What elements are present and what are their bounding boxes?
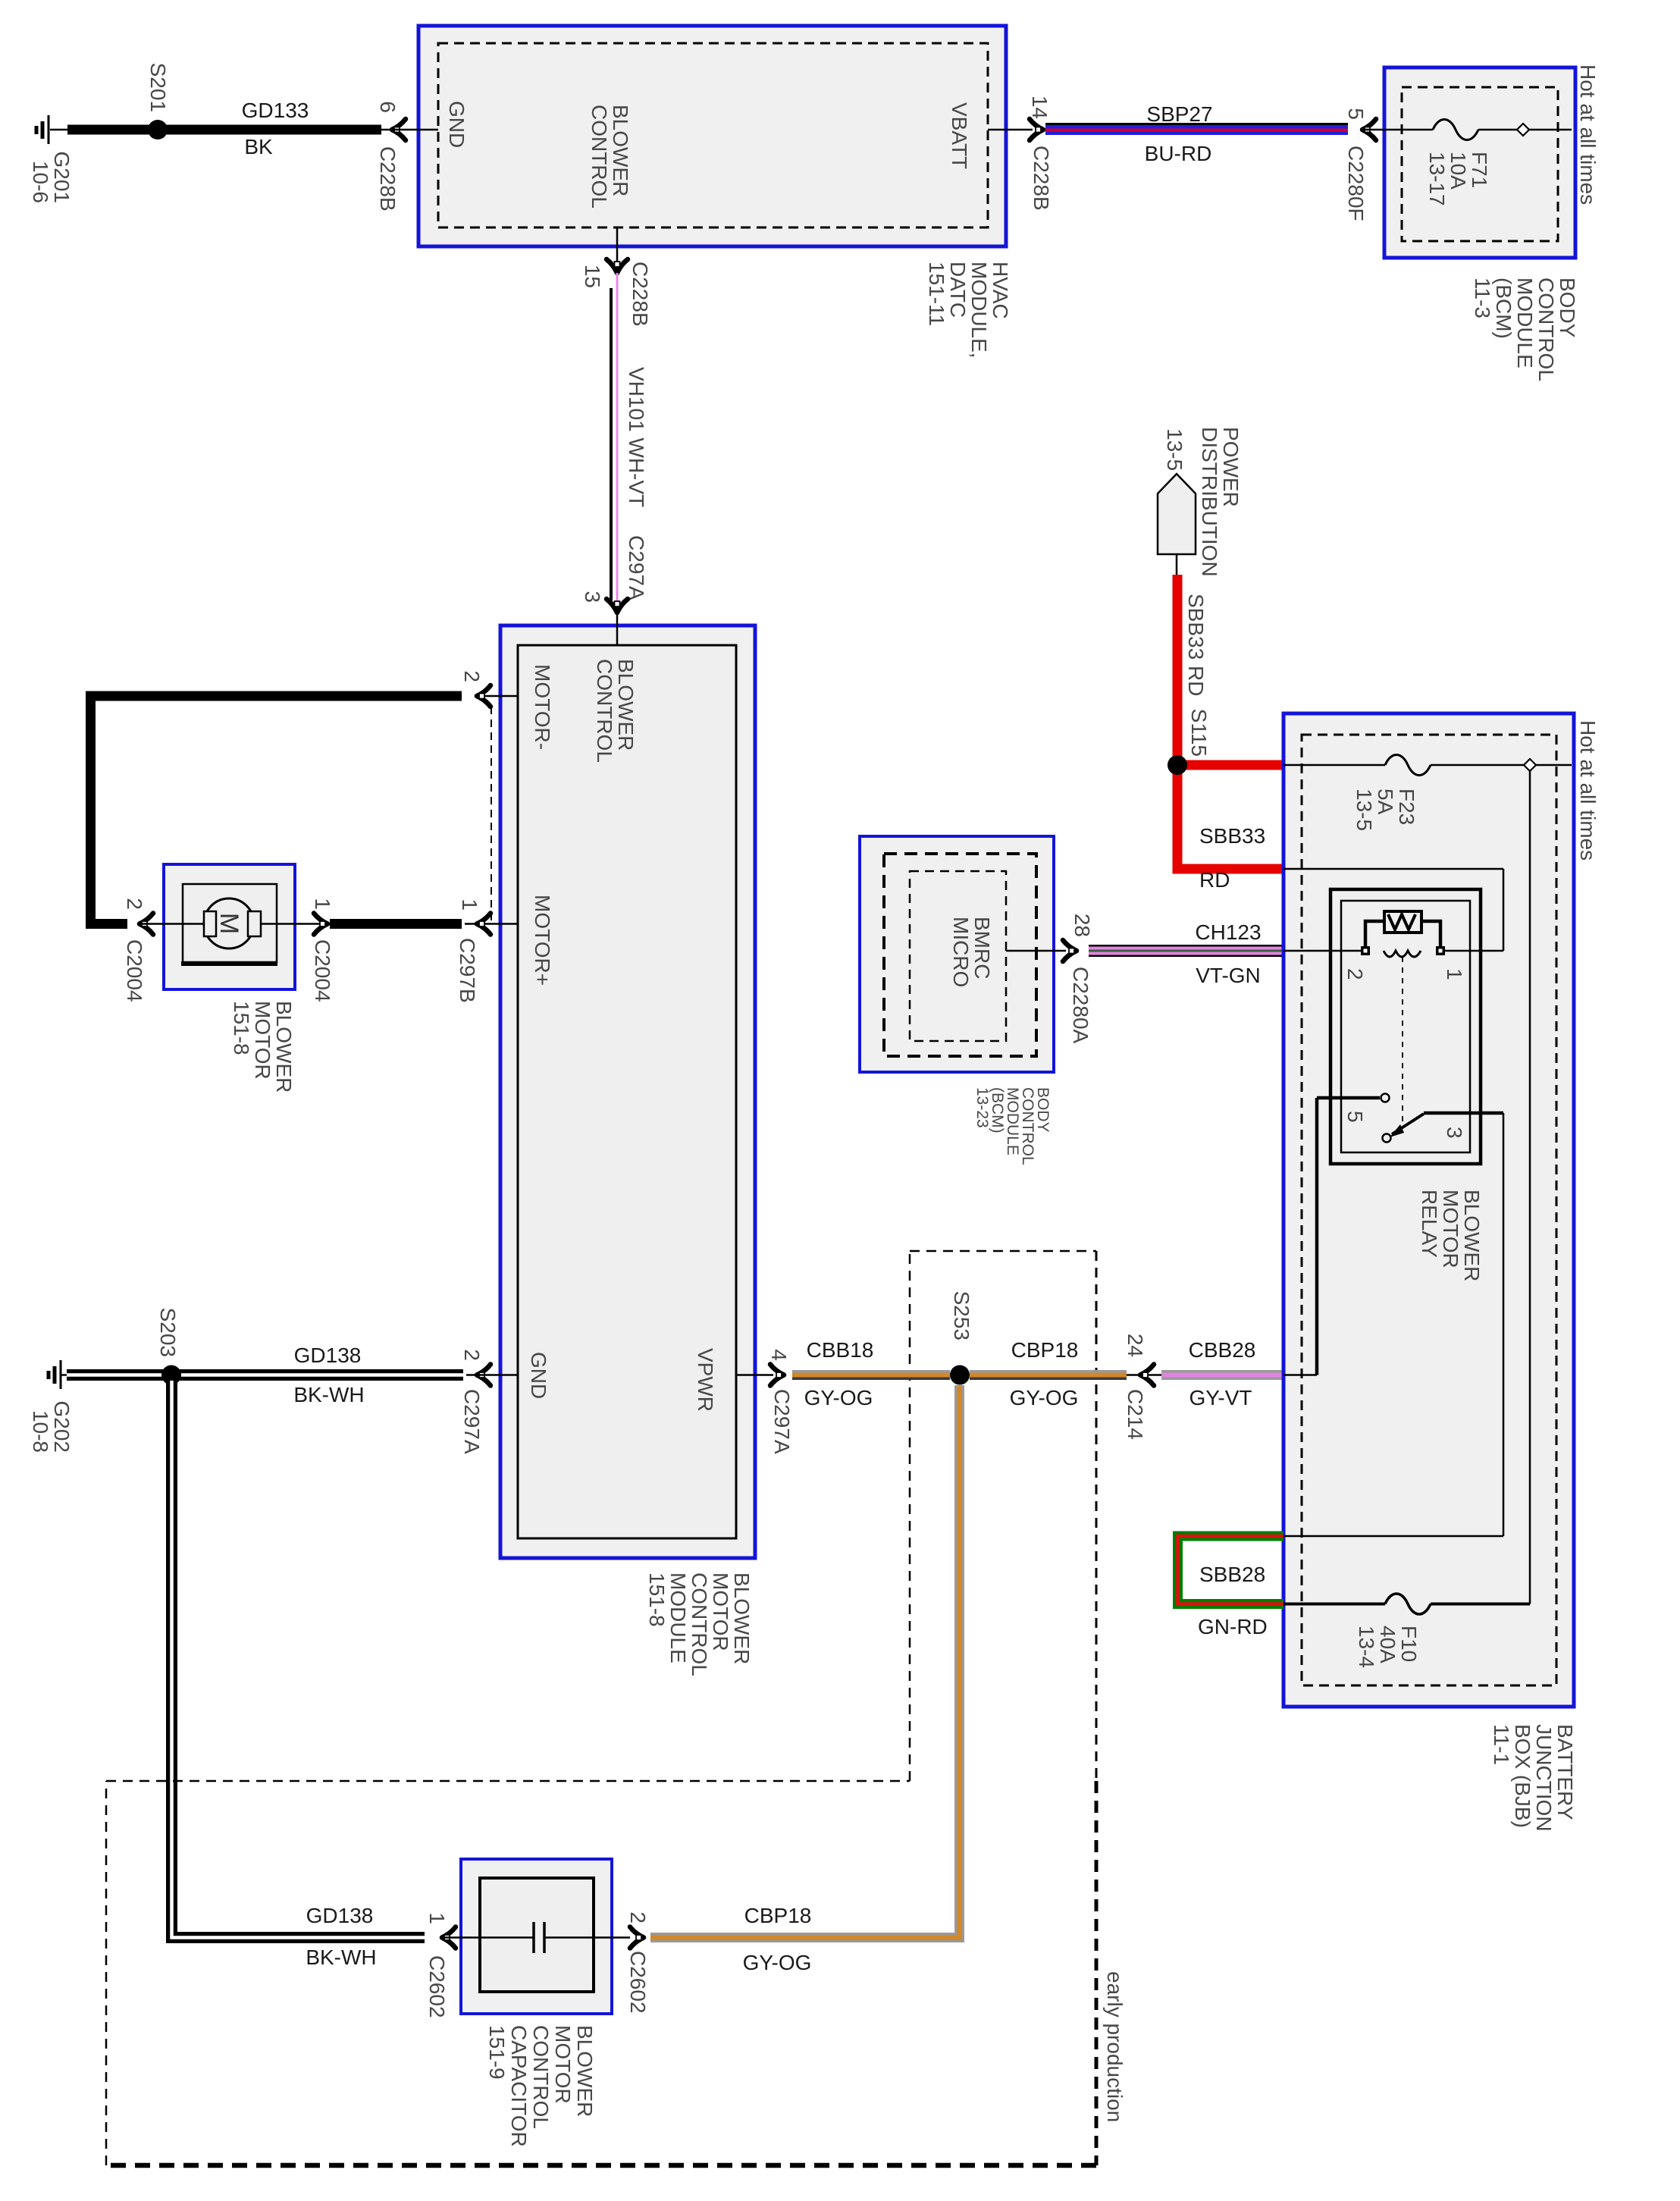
connector arrow pin 14 C228B — [1030, 119, 1043, 140]
ground G201 — [36, 115, 67, 144]
wire VPWR stub — [736, 1374, 773, 1376]
connector arrow pin 2 C297A — [477, 1365, 491, 1386]
svg-text:BATTERY: BATTERY — [1553, 1724, 1577, 1820]
motor brush left — [204, 911, 216, 936]
svg-text:2: 2 — [460, 1349, 484, 1361]
power distribution arrow symbol — [1158, 474, 1196, 554]
connector arrow pin 2 C297B — [477, 685, 491, 707]
svg-text:CBP18: CBP18 — [744, 1904, 812, 1927]
dashed harness box around S253 and early production region — [106, 1251, 1096, 2165]
svg-text:S201: S201 — [146, 63, 170, 112]
svg-text:M: M — [215, 913, 243, 934]
connector arrow pin 5 C2280F — [1362, 119, 1376, 140]
svg-text:GD138: GD138 — [306, 1904, 374, 1927]
wire into blower motor control module — [616, 613, 619, 645]
svg-text:13-5: 13-5 — [1352, 789, 1376, 831]
label F23 5A 13-5 — [1352, 789, 1418, 831]
svg-text:2: 2 — [123, 898, 146, 910]
svg-text:BLOWER: BLOWER — [609, 105, 632, 196]
svg-text:JUNCTION: JUNCTION — [1532, 1724, 1556, 1832]
svg-text:VT-GN: VT-GN — [1196, 964, 1261, 987]
wire into F23 — [1284, 764, 1385, 767]
svg-text:C228B: C228B — [628, 262, 652, 327]
label BLOWER MOTOR 151-8 — [230, 1001, 296, 1093]
wire SBP27 BU-RD — [1045, 123, 1348, 135]
BMRC inner dashed box — [910, 871, 1006, 1041]
wire into BCM — [1362, 129, 1433, 131]
svg-text:CH123: CH123 — [1195, 920, 1261, 944]
wire through blower motor — [139, 923, 328, 925]
blower motor box — [164, 864, 295, 989]
svg-text:C228B: C228B — [376, 146, 400, 212]
fuse F71 10A — [1433, 120, 1478, 140]
wire SBB28 GN-RD loop — [1178, 1536, 1284, 1604]
svg-text:DATC: DATC — [946, 262, 970, 318]
wire relay pin 5 down to CBB28 — [1284, 1098, 1317, 1375]
svg-text:SBB28: SBB28 — [1199, 1563, 1265, 1586]
label F71 10A 13-17 — [1425, 152, 1491, 206]
junction diamond F23 — [1524, 759, 1536, 771]
svg-text:GY-VT: GY-VT — [1189, 1386, 1252, 1409]
svg-text:POWER: POWER — [1219, 427, 1243, 507]
BJB inner dashed box — [1302, 735, 1556, 1685]
svg-text:1: 1 — [311, 898, 334, 910]
relay inner box — [1341, 901, 1470, 1152]
svg-text:SBB33: SBB33 — [1199, 824, 1265, 848]
wire VH101 WH-VT — [611, 273, 617, 607]
svg-text:F71: F71 — [1468, 152, 1491, 188]
svg-text:1: 1 — [425, 1912, 449, 1924]
wire SBB33 RD — [1177, 575, 1284, 869]
wire SBB33 feed to relay coil — [1284, 869, 1503, 951]
connector arrow pin 3 C297A — [606, 599, 628, 613]
svg-text:BOX (BJB): BOX (BJB) — [1511, 1724, 1534, 1828]
svg-text:1: 1 — [1443, 968, 1466, 980]
svg-text:CONTROL: CONTROL — [1534, 277, 1558, 381]
label BLOWER CONTROL (BMCM) — [593, 659, 638, 763]
svg-text:13-17: 13-17 — [1425, 152, 1449, 206]
svg-text:BLOWER: BLOWER — [730, 1572, 754, 1664]
svg-text:GD138: GD138 — [294, 1343, 362, 1367]
wire GD133 BK — [67, 125, 381, 135]
svg-text:MODULE,: MODULE, — [967, 262, 991, 359]
svg-text:C297A: C297A — [770, 1389, 794, 1454]
svg-text:S203: S203 — [156, 1308, 180, 1357]
svg-text:BLOWER: BLOWER — [1460, 1190, 1484, 1281]
connector arrow blower motor pin 2 — [139, 914, 153, 935]
label BMRC MICRO — [949, 917, 994, 987]
svg-text:C2004: C2004 — [123, 939, 146, 1002]
junction diamond — [1517, 124, 1529, 136]
svg-text:13-23: 13-23 — [973, 1087, 991, 1128]
label BODY CONTROL MODULE (BCM) 13-23 — [973, 1087, 1052, 1165]
svg-text:1: 1 — [458, 898, 481, 911]
svg-text:5A: 5A — [1374, 789, 1397, 815]
svg-text:GND: GND — [445, 101, 469, 148]
svg-text:151-8: 151-8 — [645, 1572, 669, 1627]
svg-text:4: 4 — [767, 1349, 791, 1361]
connector arrow pin 15 C228B — [606, 259, 628, 273]
label BLOWER MOTOR RELAY — [1418, 1190, 1484, 1281]
splice S201 — [148, 120, 168, 140]
connector arrow pin 6 C228B — [392, 119, 406, 140]
svg-text:11-3: 11-3 — [1471, 277, 1494, 318]
svg-text:GD133: GD133 — [242, 99, 309, 122]
blower motor relay outer box — [1331, 889, 1481, 1164]
svg-text:(BCM): (BCM) — [1492, 277, 1515, 339]
svg-text:GY-OG: GY-OG — [743, 1951, 812, 1974]
splice S253 — [950, 1365, 970, 1385]
svg-text:11-1: 11-1 — [1490, 1724, 1513, 1765]
relay pin 5 contact — [1317, 1094, 1390, 1102]
connector arrow pin 1 C297B — [477, 914, 491, 935]
connector arrow capacitor pin 2 C2602 — [630, 1927, 644, 1949]
svg-text:MOTOR: MOTOR — [551, 2025, 575, 2104]
connector arrow capacitor pin 1 C2602 — [442, 1927, 456, 1949]
svg-text:G201: G201 — [50, 152, 74, 204]
svg-text:151-11: 151-11 — [925, 262, 948, 326]
svg-text:13-5: 13-5 — [1163, 428, 1186, 471]
svg-text:early production: early production — [1103, 1971, 1127, 2122]
fuse F23 5A — [1385, 755, 1431, 776]
label BLOWER MOTOR CONTROL CAPACITOR 151-9 — [485, 2025, 597, 2147]
body control module (BCM) box 11-3 — [1384, 67, 1575, 258]
svg-text:MODULE: MODULE — [1513, 277, 1537, 368]
HVAC inner dashed box BLOWER CONTROL — [438, 43, 988, 227]
svg-text:C2602: C2602 — [425, 1955, 449, 2018]
svg-text:CBB18: CBB18 — [807, 1338, 874, 1362]
label F10 40A 13-4 — [1355, 1626, 1421, 1668]
svg-text:10A: 10A — [1446, 152, 1470, 190]
svg-text:BK: BK — [244, 135, 273, 158]
svg-text:C297A: C297A — [625, 535, 648, 600]
svg-text:MOTOR: MOTOR — [709, 1572, 732, 1651]
connector arrow pin 4 C297A — [770, 1365, 784, 1386]
svg-text:S115: S115 — [1187, 709, 1211, 757]
svg-text:CBP18: CBP18 — [1011, 1338, 1079, 1362]
svg-text:6: 6 — [376, 101, 400, 113]
wire CBB28 GY-VT — [1161, 1370, 1284, 1380]
svg-text:C297B: C297B — [456, 938, 479, 1003]
label G201 10-6 — [29, 152, 74, 204]
svg-text:2: 2 — [1343, 968, 1367, 980]
wire GND stub — [466, 1374, 518, 1376]
wire GD138 BK-WH vertical to capacitor — [172, 1381, 425, 1938]
svg-text:MODULE: MODULE — [666, 1572, 690, 1663]
blower motor control module box — [500, 625, 755, 1558]
svg-text:BK-WH: BK-WH — [306, 1945, 376, 1969]
svg-text:G202: G202 — [50, 1401, 74, 1453]
svg-text:SBB33 RD: SBB33 RD — [1184, 594, 1208, 696]
wire CBP18 GY-OG capacitor to S253 — [650, 1385, 960, 1938]
svg-text:CONTROL: CONTROL — [588, 105, 611, 208]
wire MOTOR- stub — [477, 695, 518, 698]
svg-text:GN-RD: GN-RD — [1198, 1615, 1268, 1638]
svg-text:28: 28 — [1070, 914, 1094, 937]
capacitor inner box — [480, 1878, 594, 1992]
svg-text:151-8: 151-8 — [230, 1001, 253, 1055]
battery junction box (BJB) — [1284, 713, 1574, 1707]
svg-text:MOTOR+: MOTOR+ — [531, 895, 554, 986]
wire CH123 VT-GN — [1089, 945, 1284, 957]
svg-text:MICRO: MICRO — [949, 917, 973, 987]
svg-text:DISTRIBUTION: DISTRIBUTION — [1198, 427, 1221, 577]
splice S203 — [161, 1365, 181, 1385]
wire stub to C214 — [1127, 1374, 1161, 1376]
svg-text:Hot at all times: Hot at all times — [1576, 64, 1600, 205]
wire pin 28 stub — [1006, 950, 1066, 952]
wire to BJB edge — [1536, 764, 1572, 767]
svg-text:MOTOR-: MOTOR- — [531, 664, 554, 750]
svg-text:5: 5 — [1343, 1111, 1367, 1123]
connector dashed line C297B — [491, 707, 492, 923]
stem from power distribution — [1176, 554, 1178, 575]
svg-text:HVAC: HVAC — [989, 262, 1012, 319]
svg-text:C2004: C2004 — [311, 939, 334, 1002]
svg-text:S253: S253 — [950, 1291, 973, 1340]
svg-text:BLOWER: BLOWER — [614, 659, 638, 751]
blower motor control capacitor box — [461, 1859, 612, 2014]
relay switch blade pin 3 — [1383, 1113, 1504, 1143]
svg-text:3: 3 — [1443, 1127, 1466, 1139]
svg-text:15: 15 — [581, 265, 604, 288]
svg-text:MOTOR: MOTOR — [1439, 1190, 1462, 1268]
label BODY CONTROL MODULE (BCM) 11-3 — [1471, 277, 1579, 381]
wire MOTOR- to blower motor — [91, 696, 462, 924]
wire VBATT stub — [988, 129, 1033, 131]
ground G202 — [49, 1360, 67, 1389]
splice S115 — [1168, 755, 1187, 775]
svg-text:BMRC: BMRC — [970, 917, 994, 979]
wire CBP18 GY-OG (right of S253) — [970, 1370, 1127, 1380]
capacitor symbol C — [534, 1922, 630, 1953]
wire into capacitor — [442, 1936, 534, 1939]
svg-text:C2602: C2602 — [626, 1951, 650, 2014]
svg-text:10-6: 10-6 — [29, 161, 52, 203]
BMRC outer dashed box — [884, 854, 1036, 1056]
relay coil pin 1 terminal — [1436, 946, 1445, 955]
svg-text:CONTROL: CONTROL — [593, 659, 616, 763]
svg-text:C214: C214 — [1124, 1389, 1147, 1440]
motor brush right — [248, 911, 261, 936]
svg-text:2: 2 — [626, 1911, 650, 1924]
connector arrow C214 pin 24 — [1140, 1365, 1154, 1386]
svg-text:CBB28: CBB28 — [1189, 1338, 1256, 1362]
label POWER DISTRIBUTION 13-5 — [1163, 427, 1243, 577]
wire to box edge — [1529, 129, 1572, 131]
svg-text:151-9: 151-9 — [485, 2025, 509, 2080]
label HVAC MODULE, DATC 151-11 — [925, 262, 1012, 359]
motor inner box — [183, 884, 277, 962]
svg-text:24: 24 — [1124, 1334, 1147, 1357]
BMCM inner box — [518, 645, 736, 1538]
wire GD138 BK-WH horizontal — [67, 1369, 463, 1381]
motor inner box thick bottom — [181, 961, 277, 966]
svg-text:VBATT: VBATT — [948, 102, 971, 169]
svg-text:BODY: BODY — [1556, 277, 1579, 338]
svg-text:VPWR: VPWR — [694, 1348, 717, 1412]
HVAC module DATC box — [418, 26, 1006, 246]
wire pin 15 stub — [616, 227, 619, 271]
svg-text:40A: 40A — [1376, 1626, 1399, 1663]
svg-text:BLOWER: BLOWER — [272, 1001, 296, 1093]
svg-text:C2280F: C2280F — [1344, 146, 1368, 221]
wire motor to MOTOR+ — [330, 919, 462, 929]
relay coil — [1365, 911, 1440, 957]
svg-text:F23: F23 — [1395, 789, 1418, 825]
wire to pin 6 — [381, 129, 438, 131]
svg-text:BK-WH: BK-WH — [293, 1383, 364, 1406]
svg-text:CONTROL: CONTROL — [529, 2025, 553, 2129]
svg-text:13-4: 13-4 — [1355, 1626, 1378, 1668]
svg-text:MOTOR: MOTOR — [251, 1001, 274, 1080]
svg-text:GY-OG: GY-OG — [804, 1386, 873, 1409]
svg-text:Hot at all times: Hot at all times — [1576, 720, 1600, 861]
svg-text:2: 2 — [460, 670, 484, 682]
svg-text:CAPACITOR: CAPACITOR — [507, 2025, 531, 2147]
wire after F23 — [1431, 764, 1524, 767]
connector arrow blower motor pin 1 — [314, 914, 328, 935]
svg-text:RD: RD — [1199, 868, 1230, 892]
svg-text:F10: F10 — [1397, 1626, 1421, 1662]
wire relay pin 3 to SBB28 — [1284, 1113, 1503, 1536]
fuse F10 40A — [1385, 1594, 1431, 1614]
connector arrow pin 28 C2280A — [1063, 940, 1077, 961]
svg-text:3: 3 — [581, 591, 604, 603]
BCM inner dashed box — [1402, 87, 1558, 241]
wire after fuse — [1478, 129, 1517, 131]
wire CH123 into relay coil pin 2 — [1284, 950, 1362, 952]
bus wire F23 down to F10 — [1529, 771, 1531, 1604]
svg-text:10-8: 10-8 — [29, 1410, 52, 1453]
svg-text:C297A: C297A — [460, 1389, 484, 1454]
label BLOWER MOTOR CONTROL MODULE 151-8 — [645, 1572, 754, 1676]
svg-text:BLOWER: BLOWER — [573, 2025, 597, 2117]
BMRC body control module box 13-23 — [860, 836, 1054, 1072]
svg-text:C2280A: C2280A — [1069, 967, 1092, 1044]
relay actuator dashed link — [1402, 957, 1403, 1122]
svg-text:14: 14 — [1028, 96, 1052, 119]
svg-text:VH101 WH-VT: VH101 WH-VT — [625, 367, 648, 507]
svg-text:RELAY: RELAY — [1418, 1190, 1441, 1258]
wire MOTOR+ stub — [465, 923, 518, 925]
label BATTERY JUNCTION BOX (BJB) 11-1 — [1490, 1724, 1577, 1832]
svg-text:GND: GND — [527, 1352, 550, 1399]
svg-text:5: 5 — [1344, 108, 1368, 120]
svg-text:BU-RD: BU-RD — [1145, 142, 1212, 165]
svg-text:CONTROL: CONTROL — [688, 1572, 711, 1676]
wire into F10 — [1284, 1603, 1385, 1606]
svg-text:C228B: C228B — [1030, 146, 1053, 211]
svg-text:GY-OG: GY-OG — [1010, 1386, 1079, 1409]
label G202 10-8 — [29, 1401, 74, 1453]
wire CBB18 GY-OG — [792, 1370, 950, 1380]
wire after F10 to bus — [1431, 1603, 1530, 1606]
label BLOWER CONTROL — [588, 105, 632, 208]
relay coil pin 2 terminal — [1361, 946, 1370, 955]
motor symbol M circle — [204, 898, 254, 948]
svg-text:SBP27: SBP27 — [1146, 102, 1212, 126]
